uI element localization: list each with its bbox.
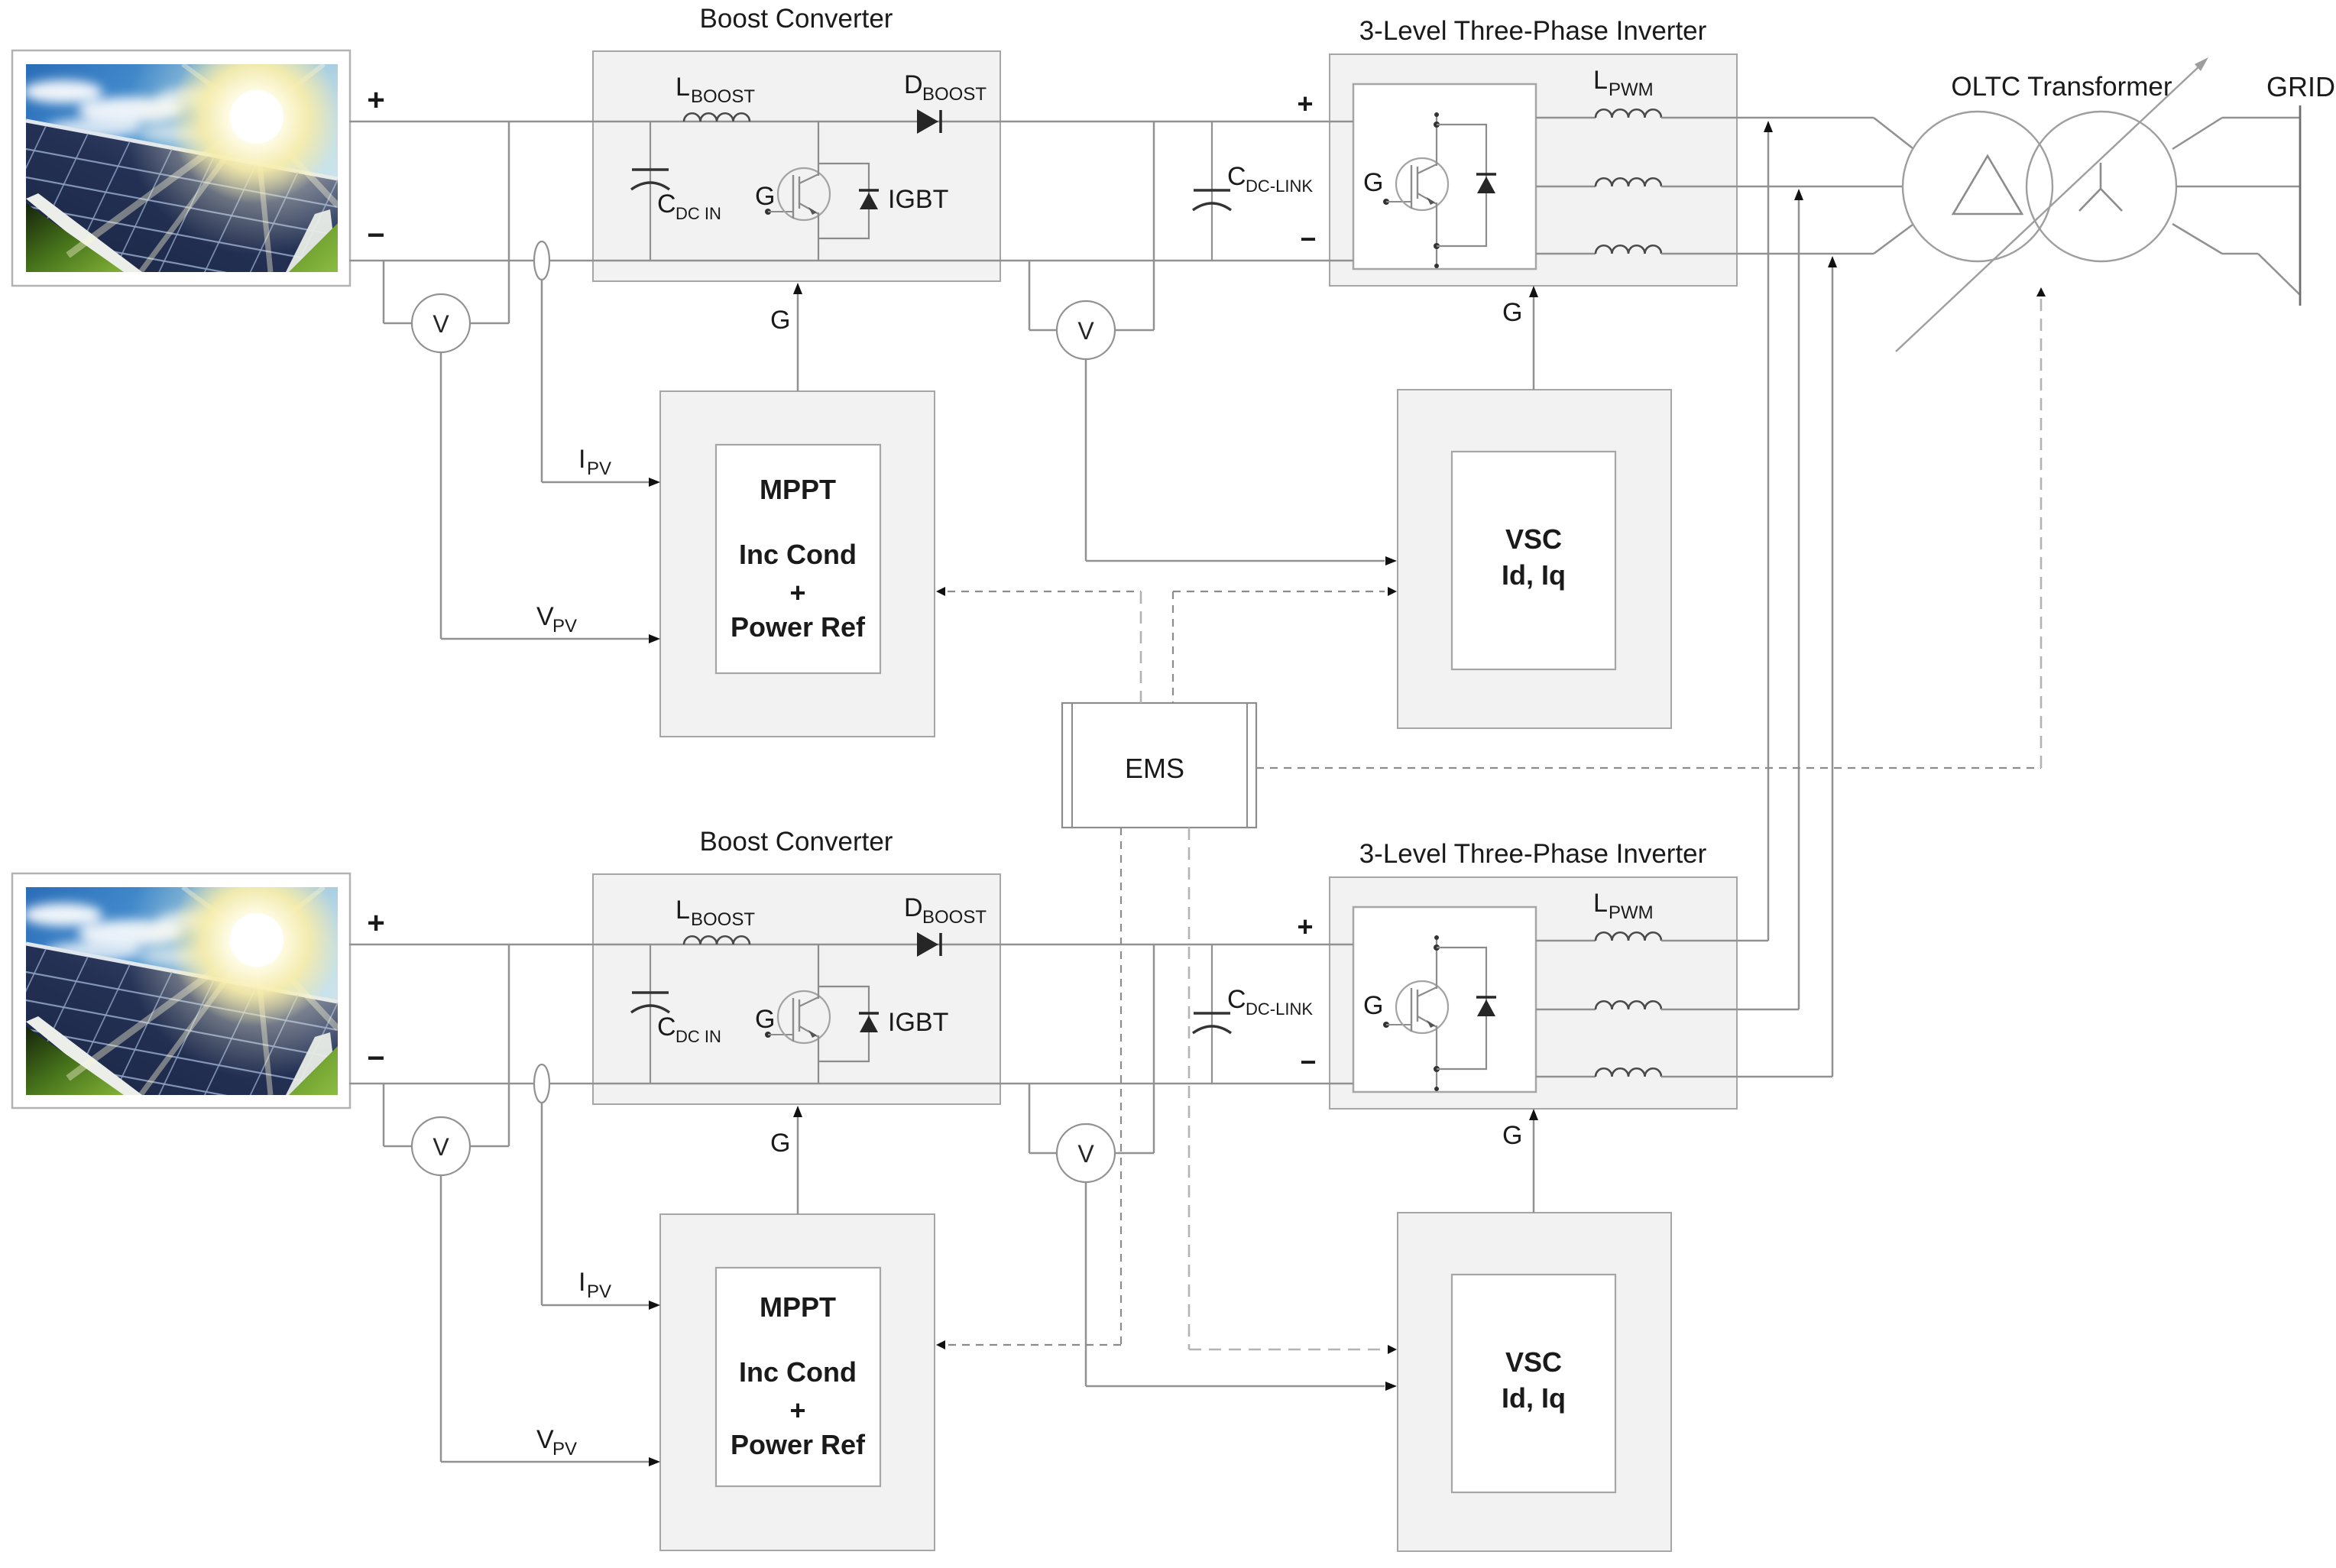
- transistor IGBT (boost 2): [765, 944, 879, 1084]
- svg-text:Power Ref: Power Ref: [731, 1429, 866, 1460]
- wire V_PV (voltmeter 1 to MPPT 1): [441, 352, 660, 643]
- svg-text:EMS: EMS: [1125, 753, 1184, 784]
- svg-text:−: −: [1300, 223, 1316, 254]
- wire dashed EMS to OLTC transformer (tap command): [1256, 287, 2046, 768]
- voltmeter V (PV1): [412, 294, 470, 352]
- wire G gate (MPPT 1 to boost 1): [793, 283, 802, 391]
- capacitor C_DC-IN (1): [631, 121, 669, 261]
- node − label (DC link 2): [1300, 1046, 1316, 1077]
- label G (boost gate wire 2): [770, 1129, 790, 1158]
- wire I_PV (sensor 1 to MPPT 1): [542, 280, 660, 487]
- wire grid phase B (transformer to GRID): [2176, 186, 2300, 188]
- label VSC (1): [1505, 523, 1562, 555]
- label Inc Cond (2): [739, 1356, 857, 1388]
- svg-text:Inc Cond: Inc Cond: [739, 1356, 857, 1388]
- label + (2): [789, 1395, 805, 1426]
- current sensor I_PV ellipse (2): [534, 1064, 549, 1103]
- wire voltmeter tap + (PV1): [470, 121, 509, 323]
- svg-text:Id, Iq: Id, Iq: [1502, 559, 1566, 591]
- wire phase A (inverter 2 to riser): [1661, 940, 1768, 942]
- svg-text:DC IN: DC IN: [676, 204, 721, 223]
- node + label (DC link 1): [1297, 88, 1313, 119]
- svg-text:Boost Converter: Boost Converter: [700, 4, 893, 34]
- svg-text:DC IN: DC IN: [676, 1027, 721, 1046]
- svg-text:G: G: [770, 1129, 790, 1158]
- label G (boost gate wire 1): [770, 306, 790, 335]
- svg-text:+: +: [789, 1395, 805, 1426]
- transformer OLTC secondary winding (wye circle): [2027, 112, 2176, 261]
- inductor L_BOOST (2): [684, 936, 750, 944]
- voltmeter V (DC link 1): [1057, 301, 1115, 359]
- svg-text:OLTC Transformer: OLTC Transformer: [1951, 72, 2172, 102]
- svg-text:GRID: GRID: [2266, 71, 2335, 102]
- svg-text:I: I: [578, 445, 585, 474]
- wire G gate (MPPT 2 to boost 2): [793, 1106, 802, 1214]
- svg-text:−: −: [1300, 1046, 1316, 1077]
- svg-text:D: D: [904, 70, 923, 99]
- node + label (PV1): [367, 83, 384, 117]
- wire DC+ bus (PV1 to boost 1 to inverter 1): [349, 121, 1353, 123]
- wire G gate (VSC 2 to inverter 2): [1529, 1109, 1538, 1213]
- svg-text:VSC: VSC: [1505, 523, 1562, 555]
- wire dashed EMS to MPPT 2 (control signal): [936, 828, 1121, 1349]
- svg-text:IGBT: IGBT: [888, 1008, 948, 1037]
- inductor L_PWM phase C (2): [1536, 1068, 1661, 1077]
- svg-text:L: L: [1593, 66, 1608, 95]
- node − label (PV2): [367, 1042, 384, 1075]
- wire voltmeter tap - (PV1): [384, 261, 412, 323]
- label L_BOOST (1): [676, 73, 755, 107]
- inductor L_PWM phase A (2): [1536, 932, 1661, 941]
- label G (inverter IGBT 1): [1363, 168, 1383, 197]
- label G (inverter gate wire 1): [1502, 298, 1522, 327]
- wire voltmeter tap + (PV2): [470, 944, 509, 1146]
- svg-text:+: +: [789, 577, 805, 608]
- block Boost Converter 1 (outline): [593, 51, 1000, 281]
- label G (boost IGBT 1): [755, 182, 775, 211]
- block 3-Level Three-Phase Inverter 2 (outline): [1330, 877, 1737, 1109]
- wire phase C (inverter 2 to riser): [1661, 1076, 1832, 1078]
- transformer OLTC tap-changer arrow: [1896, 57, 2208, 352]
- label C_DC-LINK (2): [1227, 985, 1313, 1019]
- label VSC (2): [1505, 1346, 1562, 1378]
- inductor L_BOOST (1): [684, 113, 750, 121]
- svg-text:G: G: [755, 182, 775, 211]
- label 3-Level Three-Phase Inverter 1: [1359, 16, 1707, 46]
- svg-text:Inc Cond: Inc Cond: [739, 539, 857, 570]
- svg-text:V: V: [536, 1425, 554, 1454]
- wire V_PV (voltmeter 2 to MPPT 2): [441, 1175, 660, 1466]
- label I_PV (2): [578, 1268, 611, 1302]
- svg-text:G: G: [770, 306, 790, 335]
- label C_DC-IN (2): [657, 1012, 721, 1046]
- svg-text:PWM: PWM: [1609, 79, 1654, 100]
- svg-text:V: V: [1077, 317, 1094, 345]
- label Power Ref (2): [731, 1429, 866, 1460]
- label MPPT (1): [760, 474, 836, 505]
- svg-text:L: L: [1593, 889, 1608, 918]
- label G (boost IGBT 2): [755, 1005, 775, 1034]
- wire phase C (inverter 1 to transformer): [1661, 225, 1913, 254]
- svg-text:BOOST: BOOST: [922, 907, 987, 928]
- wire phase C feedback (inverter 2 riser, junction arrow): [1828, 256, 1837, 1077]
- label Power Ref (1): [731, 611, 866, 643]
- svg-text:C: C: [1227, 162, 1246, 191]
- svg-text:+: +: [1297, 911, 1313, 942]
- voltmeter V (PV2): [412, 1117, 470, 1175]
- block EMS (outline): [1062, 703, 1256, 828]
- inductor L_PWM phase C (1): [1536, 245, 1661, 254]
- svg-text:+: +: [367, 906, 384, 940]
- block inverter bridge inner box (1): [1353, 84, 1536, 269]
- wire phase A feedback (inverter 2 riser, junction arrow): [1764, 121, 1773, 941]
- block MPPT 1 (inner box): [716, 445, 880, 673]
- wire Vdc sense (DC link voltmeter 2 to VSC 2): [1086, 1182, 1397, 1391]
- svg-text:G: G: [1502, 298, 1522, 327]
- svg-text:IGBT: IGBT: [888, 185, 948, 214]
- block MPPT 2 (outline): [660, 1214, 935, 1550]
- capacitor C_DC-IN (2): [631, 944, 669, 1084]
- block 3-Level Three-Phase Inverter 1 (outline): [1330, 54, 1737, 286]
- inductor L_PWM phase A (1): [1536, 109, 1661, 118]
- svg-text:MPPT: MPPT: [760, 474, 836, 505]
- svg-text:L: L: [676, 73, 690, 102]
- svg-text:−: −: [367, 1042, 384, 1075]
- capacitor C_DC-LINK (2): [1193, 944, 1231, 1084]
- inductor L_PWM phase B (1): [1536, 178, 1661, 186]
- label EMS: [1125, 753, 1184, 784]
- wire phase A (inverter 1 to transformer): [1661, 118, 1913, 148]
- svg-text:BOOST: BOOST: [691, 86, 755, 107]
- current sensor I_PV ellipse (1): [534, 241, 549, 280]
- diode D_BOOST (2): [917, 932, 941, 957]
- svg-text:C: C: [657, 190, 676, 219]
- node GRID bus bar: [2299, 105, 2302, 306]
- label + (1): [789, 577, 805, 608]
- wire Vdc sense (DC link voltmeter 1 to VSC 1): [1086, 359, 1397, 565]
- wire DC- bus (PV1): [349, 260, 1353, 262]
- block VSC 1 (outline): [1398, 390, 1671, 728]
- svg-text:VSC: VSC: [1505, 1346, 1562, 1378]
- label Boost Converter 2: [700, 827, 893, 857]
- label Id, Iq (2): [1502, 1382, 1566, 1414]
- label G (inverter gate wire 2): [1502, 1121, 1522, 1150]
- label IGBT (2): [888, 1008, 948, 1037]
- wire phase B feedback (inverter 2 riser, junction arrow): [1794, 189, 1803, 1009]
- svg-text:G: G: [1363, 991, 1383, 1020]
- transistor IGBT (inverter 1): [1383, 112, 1496, 268]
- wire voltmeter tap + (DC link 1): [1115, 121, 1154, 330]
- wire dashed EMS to MPPT 1 (control signal): [936, 587, 1141, 703]
- label MPPT (2): [760, 1291, 836, 1323]
- node − label (DC link 1): [1300, 223, 1316, 254]
- svg-text:Power Ref: Power Ref: [731, 611, 866, 643]
- wire voltmeter tap - (PV2): [384, 1084, 412, 1146]
- svg-text:C: C: [657, 1012, 676, 1042]
- label Inc Cond (1): [739, 539, 857, 570]
- svg-text:PWM: PWM: [1609, 902, 1654, 923]
- svg-text:G: G: [755, 1005, 775, 1034]
- label D_BOOST (1): [904, 70, 987, 105]
- svg-text:L: L: [676, 896, 690, 925]
- wire voltmeter tap + (DC link 2): [1115, 944, 1154, 1153]
- svg-text:V: V: [536, 602, 554, 631]
- photovoltaic array PV1 (photo): [0, 0, 393, 316]
- svg-text:V: V: [1077, 1140, 1094, 1168]
- svg-text:MPPT: MPPT: [760, 1291, 836, 1323]
- wire voltmeter tap - (DC link 1): [1029, 261, 1057, 330]
- block inverter bridge inner box (2): [1353, 907, 1536, 1092]
- svg-text:C: C: [1227, 985, 1246, 1014]
- wire phase B (inverter 1 to transformer): [1661, 186, 1903, 188]
- svg-text:DC-LINK: DC-LINK: [1246, 999, 1313, 1019]
- capacitor C_DC-LINK (1): [1193, 121, 1231, 261]
- transformer OLTC primary winding (delta circle): [1903, 112, 2053, 261]
- transistor IGBT (boost 1): [765, 121, 879, 261]
- block VSC 2 (outline): [1398, 1213, 1671, 1551]
- svg-text:3-Level Three-Phase Inverter: 3-Level Three-Phase Inverter: [1359, 839, 1707, 869]
- wire dashed EMS to VSC 1 (control signal): [1173, 587, 1397, 703]
- svg-text:PV: PV: [552, 616, 577, 637]
- svg-text:PV: PV: [552, 1439, 577, 1459]
- wire I_PV (sensor 2 to MPPT 2): [542, 1103, 660, 1310]
- svg-text:−: −: [367, 219, 384, 252]
- label Boost Converter 1: [700, 4, 893, 34]
- wire G gate (VSC 1 to inverter 1): [1529, 286, 1538, 390]
- block MPPT 2 (inner box): [716, 1268, 880, 1486]
- svg-text:I: I: [578, 1268, 585, 1297]
- wire DC- bus (PV2): [349, 1083, 1353, 1085]
- label GRID: [2266, 71, 2335, 102]
- label L_BOOST (2): [676, 896, 755, 930]
- svg-text:G: G: [1502, 1121, 1522, 1150]
- inductor L_PWM phase B (2): [1536, 1001, 1661, 1009]
- photovoltaic array PV2 (photo): [0, 811, 393, 1139]
- node + label (PV2): [367, 906, 384, 940]
- label 3-Level Three-Phase Inverter 2: [1359, 839, 1707, 869]
- label L_PWM (2): [1593, 889, 1654, 923]
- wire grid phase C (transformer to GRID): [2172, 224, 2300, 295]
- label IGBT (1): [888, 185, 948, 214]
- label L_PWM (1): [1593, 66, 1654, 100]
- label V_PV (2): [536, 1425, 577, 1459]
- svg-text:PV: PV: [587, 1281, 611, 1302]
- svg-text:PV: PV: [587, 458, 611, 479]
- label Id, Iq (1): [1502, 559, 1566, 591]
- svg-text:BOOST: BOOST: [922, 84, 987, 105]
- label V_PV (1): [536, 602, 577, 637]
- svg-text:Id, Iq: Id, Iq: [1502, 1382, 1566, 1414]
- wire voltmeter tap - (DC link 2): [1029, 1084, 1057, 1153]
- svg-text:DC-LINK: DC-LINK: [1246, 177, 1313, 196]
- svg-text:+: +: [367, 83, 384, 117]
- label G (inverter IGBT 2): [1363, 991, 1383, 1020]
- svg-text:BOOST: BOOST: [691, 909, 755, 930]
- block Boost Converter 2 (outline): [593, 874, 1000, 1104]
- svg-text:3-Level Three-Phase Inverter: 3-Level Three-Phase Inverter: [1359, 16, 1707, 46]
- voltmeter V (DC link 2): [1057, 1124, 1115, 1182]
- block VSC 1 (inner box): [1452, 452, 1615, 669]
- wire DC+ bus (PV2 to boost 2 to inverter 2): [349, 944, 1353, 946]
- svg-text:Boost Converter: Boost Converter: [700, 827, 893, 857]
- svg-text:V: V: [433, 1133, 449, 1161]
- svg-text:V: V: [433, 310, 449, 338]
- transistor IGBT (inverter 2): [1383, 935, 1496, 1091]
- wire dashed EMS to VSC 2 (control signal): [1189, 828, 1397, 1354]
- block VSC 2 (inner box): [1452, 1275, 1615, 1492]
- svg-text:+: +: [1297, 88, 1313, 119]
- svg-text:G: G: [1363, 168, 1383, 197]
- diode D_BOOST (1): [917, 109, 941, 134]
- label C_DC-LINK (1): [1227, 162, 1313, 196]
- label OLTC Transformer: [1951, 72, 2172, 102]
- label I_PV (1): [578, 445, 611, 479]
- label D_BOOST (2): [904, 893, 987, 928]
- node + label (DC link 2): [1297, 911, 1313, 942]
- label C_DC-IN (1): [657, 190, 721, 223]
- wire phase B (inverter 2 to riser): [1661, 1009, 1799, 1011]
- block MPPT 1 (outline): [660, 391, 935, 737]
- node − label (PV1): [367, 219, 384, 252]
- svg-text:D: D: [904, 893, 923, 922]
- wire grid phase A (transformer to GRID): [2172, 118, 2300, 149]
